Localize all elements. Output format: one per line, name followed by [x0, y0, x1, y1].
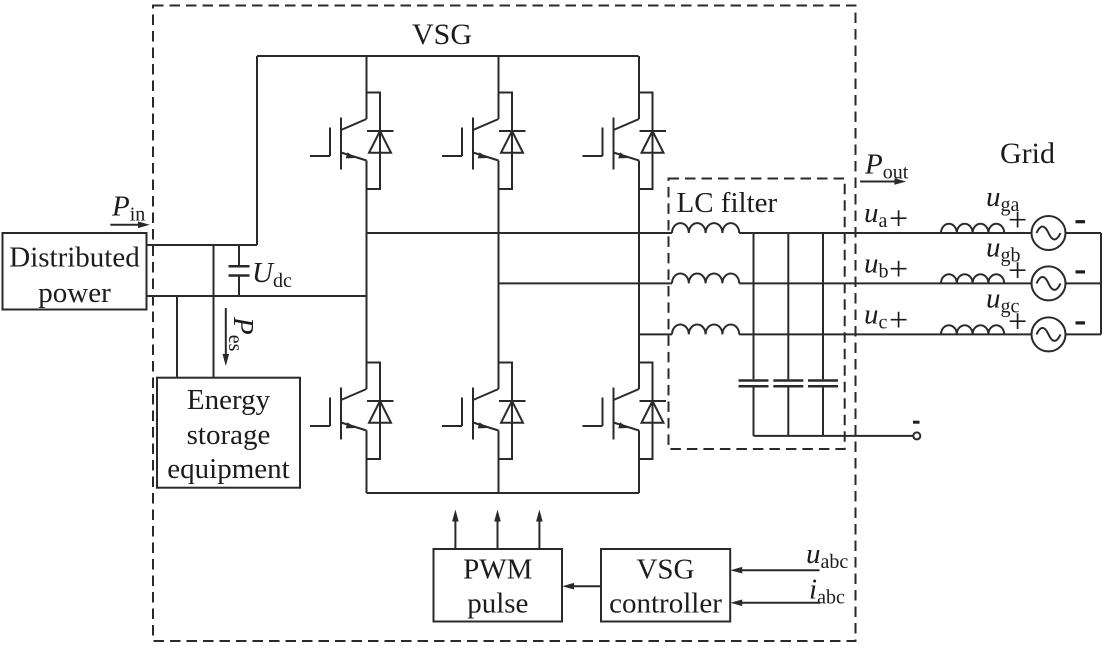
inductor filter Lc — [672, 325, 739, 335]
gate signal arrow 1 — [452, 510, 459, 550]
AC source Vga — [1032, 216, 1066, 250]
wire phase B filter to source — [739, 282, 1031, 284]
wire phase C to filter — [639, 333, 672, 335]
wire phase C filter to source — [739, 333, 1031, 335]
svg-text:LC filter: LC filter — [677, 187, 778, 219]
svg-text:power: power — [38, 277, 111, 309]
wire leg2 lower — [498, 431, 500, 494]
svg-text:+: + — [1008, 202, 1027, 239]
wire riser to energy storage (left) — [176, 296, 178, 378]
wire leg3 lower — [638, 431, 640, 494]
svg-text:storage: storage — [187, 419, 271, 451]
gate signal arrow 2 — [494, 510, 501, 550]
transistor Q5 — [442, 363, 526, 460]
wire source A to right bus — [1066, 232, 1102, 234]
minus sign neutral — [913, 421, 920, 424]
wire leg2 middle — [498, 161, 500, 390]
arrow VSG controller to PWM pulse — [562, 583, 601, 590]
capacitor filter Ca — [739, 233, 769, 436]
inductor filter Lb — [672, 274, 739, 284]
VSG controller box — [601, 549, 730, 622]
capacitor filter Cb — [773, 233, 803, 436]
wire phase A filter to source — [739, 232, 1031, 234]
transistor Q3 — [583, 93, 667, 190]
wire DC- from distributed power to leg1 — [147, 295, 367, 297]
transistor Q1 — [310, 93, 394, 190]
wire source B to right bus — [1066, 282, 1102, 284]
wire leg3 upper — [638, 56, 640, 119]
svg-text:+: + — [1008, 252, 1027, 289]
wire source C to right bus — [1066, 333, 1102, 335]
transistor Q2 — [442, 93, 526, 190]
svg-text:pulse: pulse — [467, 588, 528, 620]
gate signal arrow 3 — [536, 510, 543, 550]
grid inductor Lgb — [941, 274, 1004, 283]
wire capacitor neutral bus — [754, 435, 914, 437]
wire DC+ from distributed power to riser — [147, 244, 258, 246]
P_in arrow — [110, 222, 150, 229]
LC filter dashed box — [669, 179, 845, 450]
svg-text:PWM: PWM — [463, 554, 532, 586]
PWM pulse box — [434, 549, 563, 622]
wire phase A to filter — [367, 232, 673, 234]
svg-text:+: + — [889, 201, 908, 238]
svg-text:controller: controller — [609, 588, 722, 620]
wire leg2 upper — [498, 56, 500, 119]
svg-text:equipment: equipment — [167, 453, 289, 485]
P_out arrow — [860, 178, 906, 185]
inductor filter La — [672, 223, 739, 233]
svg-text:Grid: Grid — [1000, 137, 1055, 170]
capacitor Udc — [229, 245, 250, 296]
neutral terminal — [913, 432, 920, 439]
svg-text:+: + — [1008, 303, 1027, 340]
wire riser to energy storage (right) — [213, 245, 215, 378]
Distributed power box — [3, 233, 147, 310]
wire leg1 lower — [366, 431, 368, 494]
transistor Q4 — [310, 363, 394, 460]
wire leg1 upper — [366, 56, 368, 119]
wire left riser to top rail — [256, 56, 258, 245]
VSG system dashed boundary — [153, 6, 856, 642]
minus sign phase c — [1076, 321, 1086, 324]
svg-text:+: + — [889, 251, 908, 288]
wire leg3 middle — [638, 161, 640, 390]
P_es arrow — [223, 308, 230, 366]
capacitor filter Cc — [808, 233, 838, 436]
arrow i_abc input — [730, 600, 819, 607]
minus sign phase a — [1076, 220, 1086, 223]
wire top DC rail — [257, 55, 639, 57]
svg-text:VSG: VSG — [636, 554, 694, 586]
wire phase B to filter — [499, 282, 673, 284]
svg-text:+: + — [889, 302, 908, 339]
minus sign phase b — [1076, 270, 1086, 273]
transistor Q6 — [583, 363, 667, 460]
svg-text:VSG: VSG — [412, 18, 472, 51]
Energy storage equipment box — [157, 378, 300, 488]
AC source Vgb — [1032, 266, 1066, 300]
svg-text:Energy: Energy — [187, 384, 271, 416]
wire bottom DC rail — [367, 492, 640, 494]
grid inductor Lga — [941, 224, 1004, 233]
AC source Vgc — [1032, 317, 1066, 351]
wire right grid bus — [1100, 233, 1102, 334]
grid inductor Lgc — [941, 325, 1004, 334]
wire leg1 middle — [366, 161, 368, 390]
svg-text:Distributed: Distributed — [9, 242, 140, 274]
arrow u_abc input — [730, 567, 819, 574]
